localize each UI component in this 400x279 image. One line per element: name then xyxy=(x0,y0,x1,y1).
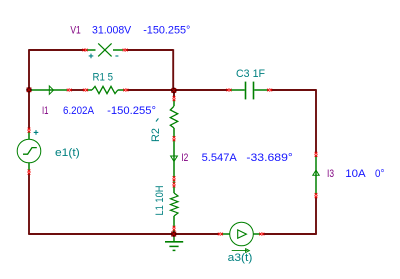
e1 plus sign xyxy=(34,130,39,135)
wire between I2 and L1 xyxy=(173,180,175,184)
ground xyxy=(165,234,183,250)
svg-text:I1: I1 xyxy=(42,105,49,117)
connection ticks I2 bottom xyxy=(173,176,176,181)
label R2 tick mark xyxy=(156,118,158,121)
connection ticks I3 bottom xyxy=(315,193,318,198)
connection ticks V1 right xyxy=(123,49,128,52)
wire bottom rail right segment xyxy=(263,233,317,235)
capacitor C3 xyxy=(230,82,268,100)
connection ticks e1 bottom xyxy=(28,170,31,175)
svg-text:-150.255°: -150.255° xyxy=(143,25,190,37)
wire mid rail R1 to C3 xyxy=(127,89,228,91)
connection ticks C3 right xyxy=(267,89,272,92)
svg-text:e1(t): e1(t) xyxy=(55,147,80,159)
svg-text:V1: V1 xyxy=(70,25,80,37)
wire mid rail between I1 and R1 xyxy=(71,89,84,91)
connection ticks L1 top xyxy=(173,182,176,187)
connection ticks I3 top xyxy=(315,152,318,157)
connection ticks a3 left xyxy=(218,233,223,236)
connection ticks R1 right xyxy=(123,89,128,92)
wire top-right drop to mid rail xyxy=(172,49,174,90)
connection ticks L1 bottom xyxy=(173,226,176,231)
junction node bottom xyxy=(171,231,177,237)
V1 minus sign xyxy=(115,55,118,57)
svg-text:-33.689°: -33.689° xyxy=(246,152,292,164)
wire left vertical lower xyxy=(28,173,30,234)
wire middle branch stub below junction xyxy=(173,90,175,97)
connection ticks a3 right xyxy=(259,233,264,236)
svg-text:a3(t): a3(t) xyxy=(228,252,253,264)
wire right vertical upper xyxy=(315,89,317,153)
wire top rail left segment xyxy=(29,49,85,51)
junction node middle xyxy=(171,88,177,94)
resistor R1 xyxy=(87,86,124,93)
svg-text:31.008V: 31.008V xyxy=(92,25,132,37)
connection ticks I1 end xyxy=(67,89,72,92)
wire mid rail C3 to right corner xyxy=(271,89,316,91)
svg-text:I3: I3 xyxy=(327,168,334,180)
connection ticks C3 left xyxy=(227,89,232,92)
wire left vertical upper xyxy=(28,49,30,129)
wire L1 to bottom junction xyxy=(173,230,175,234)
a3 direction arrow xyxy=(232,249,250,253)
svg-text:-150.255°: -150.255° xyxy=(107,105,156,117)
svg-text:R1 5: R1 5 xyxy=(93,72,114,84)
ammeter probe I2 xyxy=(171,140,178,177)
svg-text:L1 10H: L1 10H xyxy=(154,185,166,215)
wire bottom rail left segment xyxy=(28,233,219,235)
junction node left xyxy=(26,87,32,93)
connection ticks V1 left xyxy=(83,49,88,52)
svg-text:10A: 10A xyxy=(345,168,366,180)
wire top rail right segment xyxy=(126,49,174,51)
voltmeter V1 xyxy=(87,43,123,56)
svg-text:I2: I2 xyxy=(181,152,188,164)
connection ticks R2 top xyxy=(173,96,176,101)
resistor R2 xyxy=(170,100,177,137)
svg-text:C3 1F: C3 1F xyxy=(236,68,265,80)
wire right vertical lower xyxy=(315,197,317,234)
svg-text:6.202A: 6.202A xyxy=(63,105,95,117)
svg-text:R2: R2 xyxy=(150,128,162,142)
inductor L1 xyxy=(171,187,179,228)
current source a3 xyxy=(222,222,260,246)
connection ticks R1 left xyxy=(83,89,88,92)
V1 plus sign xyxy=(89,54,94,59)
ammeter probe I3 xyxy=(313,156,319,194)
voltage source e1 xyxy=(17,132,41,171)
svg-text:0°: 0° xyxy=(375,168,384,180)
connection ticks R2 bottom xyxy=(173,136,176,141)
ammeter probe I1 xyxy=(29,86,67,94)
connection ticks e1 top xyxy=(28,128,31,133)
svg-text:5.547A: 5.547A xyxy=(202,152,238,164)
